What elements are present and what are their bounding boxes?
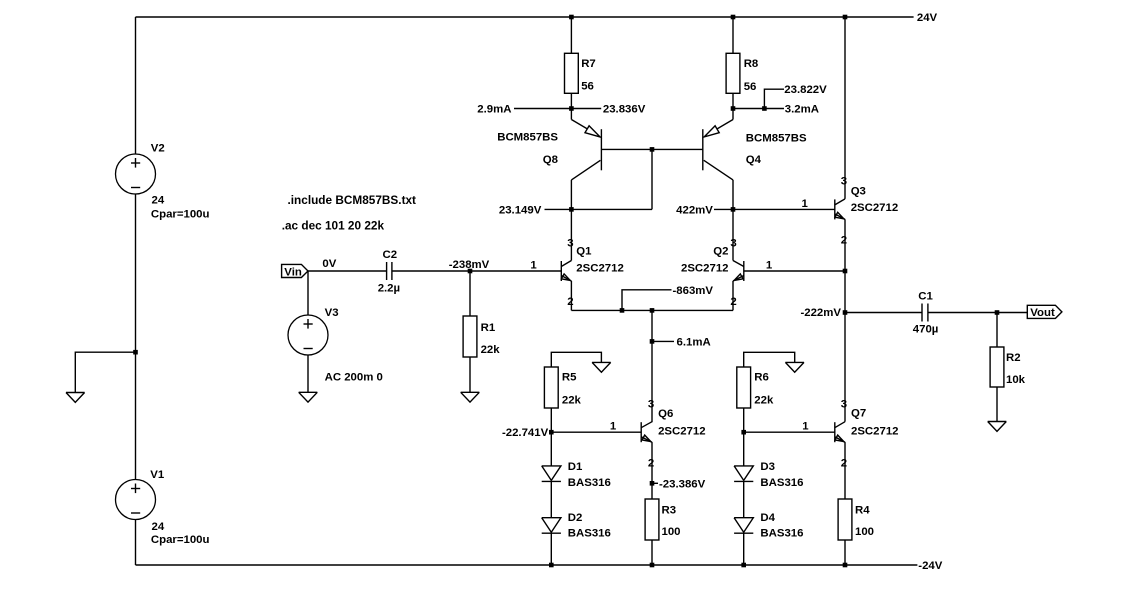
svg-text:2.2µ: 2.2µ [378,282,400,294]
svg-text:2SC2712: 2SC2712 [658,425,706,437]
junction top rail R7 [569,15,574,20]
resistor R2 [990,347,1026,387]
wire R1 to ground [469,357,471,392]
junction probe stub [762,106,767,111]
resistor R5 [544,367,581,408]
wire R5 top tie [551,352,601,367]
wire Vin to C2 [308,270,387,272]
transistor Q4 [652,109,807,210]
junction Q2 base at Q3 emitter [843,269,848,274]
capacitor C2 [378,249,400,294]
wire R8 to emitter node [732,93,734,108]
wire emitter node to probe junction [733,108,764,110]
wire R5 to base node [550,408,552,432]
wire base node to Q6 [551,431,641,433]
svg-text:D1: D1 [568,461,583,473]
wire base node to D3 [743,432,745,466]
svg-text:23.149V: 23.149V [499,204,542,216]
diode D2 [542,512,611,539]
wire tail Q1 to Q2 emitters [571,309,733,311]
junction Q8 emitter node [569,106,574,111]
wire Q2 base to output column [744,270,845,272]
svg-text:3: 3 [841,176,847,188]
svg-text:Q7: Q7 [851,408,866,420]
wire D1 to D2 [550,481,552,517]
svg-text:2SC2712: 2SC2712 [851,202,899,214]
svg-text:Q1: Q1 [576,246,592,258]
svg-text:23.822V: 23.822V [784,84,827,96]
wire -863mV stub [622,290,672,311]
ground symbol V3 [299,392,318,402]
wire V3 to ground [307,355,309,392]
svg-text:100: 100 [855,526,874,538]
wire C2 to Q1 base [392,270,561,272]
svg-text:R2: R2 [1006,352,1021,364]
svg-text:BAS316: BAS316 [760,528,803,540]
svg-text:R7: R7 [581,58,596,70]
svg-text:2: 2 [841,235,847,247]
voltage source V3 [288,307,383,384]
voltage source V1 [116,469,210,546]
flag Vout [1027,305,1062,319]
svg-text:V2: V2 [151,143,165,155]
junction Q6 base node [549,430,554,435]
wire rail to R7 [570,17,572,53]
wire +24V top rail [136,16,914,18]
transistor Q7 [835,313,899,500]
ground symbol left [66,393,85,403]
junction -238mV node [468,269,473,274]
ground symbol R5 [592,362,611,372]
wire V2 minus to V1 plus [135,194,137,480]
svg-text:24: 24 [152,521,165,533]
diode D4 [734,512,803,539]
resistor R1 [463,316,500,357]
svg-text:D4: D4 [760,512,775,524]
svg-text:R3: R3 [662,505,677,517]
svg-text:1: 1 [802,421,809,433]
junction -863mV stub [620,308,625,313]
wire R2 top [996,313,998,348]
wire 3.2mA stub [764,108,784,110]
transistor Q2 [681,209,744,310]
junction top rail Q3 [843,15,848,20]
transistor Q1 [561,209,624,310]
svg-text:470µ: 470µ [913,323,939,335]
svg-text:1: 1 [766,260,773,272]
wire R4 to rail [844,540,846,565]
svg-text:Q8: Q8 [543,154,558,166]
wire 23.822V stub [764,89,784,108]
svg-text:C2: C2 [383,249,398,261]
svg-text:R4: R4 [855,505,870,517]
junction Q7 base node [741,430,746,435]
svg-text:2SC2712: 2SC2712 [681,263,729,275]
svg-text:56: 56 [581,81,594,93]
svg-text:56: 56 [744,81,757,93]
svg-text:V3: V3 [325,307,339,319]
svg-text:3: 3 [648,399,654,411]
svg-text:2SC2712: 2SC2712 [851,426,899,438]
wire Q6 emitter down [651,442,653,499]
wire V1 minus to bottom rail [135,520,137,566]
svg-text:Q2: Q2 [713,246,728,258]
wire R3 to rail [651,540,653,565]
wire base node to D1 [550,432,552,466]
junction Q8 collector node [569,207,574,212]
svg-text:.ac dec 101 20 22k: .ac dec 101 20 22k [282,218,385,232]
svg-text:3.2mA: 3.2mA [785,104,819,116]
wire R6 top tie [744,352,795,367]
resistor R3 [645,499,680,540]
svg-text:422mV: 422mV [676,204,713,216]
svg-text:Q4: Q4 [746,154,762,166]
wire C1 to Vout [928,312,1027,314]
wire -23.386V stub [652,482,658,484]
voltage source V2 [116,143,210,221]
svg-text:2.9mA: 2.9mA [477,104,511,116]
svg-text:R1: R1 [481,322,496,334]
wire base tie down [651,149,653,209]
resistor R6 [737,367,774,408]
svg-text:0V: 0V [322,258,336,270]
wire -24V bottom rail [136,564,918,566]
wire tail down to Q6 collector [651,310,653,422]
svg-text:D2: D2 [568,512,583,524]
svg-text:BAS316: BAS316 [568,477,611,489]
svg-text:R8: R8 [744,58,759,70]
transistor Q3 [835,17,898,313]
svg-text:10k: 10k [1006,374,1026,386]
ground symbol R1 [461,392,480,402]
svg-text:3: 3 [730,237,736,249]
svg-text:-222mV: -222mV [800,307,841,319]
junction R2 top [995,310,1000,315]
junction PNP base tie [650,147,655,152]
svg-text:D3: D3 [760,461,775,473]
junction tail node [650,308,655,313]
wire R2 to ground [996,387,998,422]
svg-text:2SC2712: 2SC2712 [576,263,624,275]
svg-text:24: 24 [152,195,165,207]
svg-text:-24V: -24V [918,560,942,572]
svg-text:22k: 22k [481,344,501,356]
svg-text:2: 2 [648,457,654,469]
svg-text:-863mV: -863mV [673,285,714,297]
resistor R7 [565,53,596,93]
junction rail R3 [650,563,655,568]
flag Vin [282,264,308,278]
svg-text:2: 2 [567,296,573,308]
junction -23.386V node [650,481,655,486]
wire 23.149V stub [545,208,572,210]
junction Q4 collector node [731,207,736,212]
transistor Q6 [641,408,705,442]
svg-text:V1: V1 [150,469,165,481]
wire Vin to V3 [307,271,309,315]
wire base tie to Q8 collector [571,208,652,210]
svg-text:R6: R6 [754,372,769,384]
junction rail D4 [741,563,746,568]
svg-text:6.1mA: 6.1mA [677,336,711,348]
ground symbol R6 [785,362,804,372]
diode D3 [734,461,803,489]
svg-text:22k: 22k [562,395,582,407]
wire R7 to emitter node [570,93,572,108]
svg-text:100: 100 [662,526,681,538]
svg-text:BAS316: BAS316 [760,477,803,489]
diode D1 [542,461,611,489]
svg-text:R5: R5 [562,372,577,384]
wire midpoint ground stub [75,352,135,392]
wire D2 to rail [550,533,552,565]
svg-text:22k: 22k [754,395,774,407]
junction output node [843,310,848,315]
junction top rail R8 [731,15,736,20]
junction rail R4 [843,563,848,568]
svg-text:Cpar=100u: Cpar=100u [151,209,210,221]
svg-text:2: 2 [730,296,736,308]
junction Q4 emitter node [731,106,736,111]
svg-text:C1: C1 [918,291,933,303]
svg-text:Vin: Vin [284,266,302,278]
wire R6 to base node [743,408,745,432]
svg-text:Cpar=100u: Cpar=100u [151,534,210,546]
wire 422mV to Q3 base [714,208,835,210]
svg-text:23.836V: 23.836V [603,104,646,116]
wire D3 to D4 [743,481,745,517]
svg-text:1: 1 [530,260,537,272]
svg-text:BAS316: BAS316 [568,528,611,540]
svg-text:3: 3 [841,399,847,411]
ground symbol R2 [988,422,1007,432]
svg-text:BCM857BS: BCM857BS [746,133,807,145]
junction 6.1mA stub [650,339,655,344]
wire 23.836V stub [571,108,601,110]
svg-text:AC 200m 0: AC 200m 0 [325,371,383,383]
transistor Q8 [497,109,652,210]
svg-text:2: 2 [841,457,847,469]
svg-text:1: 1 [610,421,617,433]
wire D4 to rail [743,533,745,565]
svg-text:.include BCM857BS.txt: .include BCM857BS.txt [288,193,417,207]
wire 6.1mA stub [652,340,674,342]
svg-text:Q6: Q6 [658,408,673,420]
svg-text:24V: 24V [917,12,938,24]
svg-text:Vout: Vout [1030,307,1055,319]
svg-text:1: 1 [802,198,809,210]
wire base node to Q7 [744,431,835,433]
capacitor C1 [913,291,939,336]
wire node to R1 [469,271,471,316]
wire left rail top (rail to V2 plus) [135,17,137,154]
junction rail D2 [549,563,554,568]
svg-text:Q3: Q3 [851,186,866,198]
svg-text:3: 3 [567,237,573,249]
wire output node to C1 [845,312,922,314]
svg-text:-22.741V: -22.741V [502,427,549,439]
resistor R4 [838,499,874,540]
resistor R8 [726,53,758,93]
svg-text:BCM857BS: BCM857BS [497,132,558,144]
wire rail to R8 [732,17,734,53]
svg-text:-23.386V: -23.386V [659,478,706,490]
junction midpoint node [133,350,138,355]
wire 2.9mA stub [514,108,571,110]
